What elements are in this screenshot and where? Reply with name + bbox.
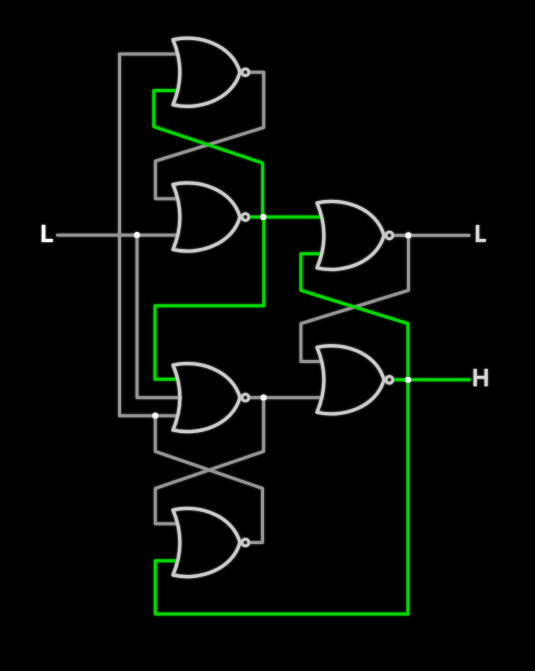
NOR gate U2 mid-left: [173, 183, 249, 251]
wire U5 output junction down, diagonal, down to U6 upper input: [155, 398, 263, 524]
wire U6 output feedback: bubble right, up, diagonal up-left: [155, 416, 262, 543]
NOR gate U3 mid-right: [317, 201, 393, 269]
junction at U4 output: [405, 377, 411, 383]
wire U2 output net up, diagonal, up to U1 lower input: [154, 91, 263, 218]
NOR gate U1 top-left: [173, 38, 249, 106]
junction at U5 output: [261, 395, 267, 401]
wire junction left and long vertical up to gate U1 upper input: [120, 54, 177, 416]
wire U4 output junction down, left, up to U6 lower input: [155, 380, 408, 614]
junction at U3 output: [405, 232, 411, 238]
junction at U2 output: [260, 214, 266, 220]
NOR gate U5 lower-left (3-input): [173, 364, 249, 432]
wire U4 output junction up, diagonal, up to U3 lower input: [301, 254, 408, 380]
wire U3 output junction down, diagonal, down to U4 upper input: [301, 235, 409, 361]
wire L net vertical down to gate U5 middle input: [137, 235, 181, 398]
NOR gate U4 lower-right: [317, 346, 393, 414]
wire U5 output to U4 lower input: [250, 396, 320, 399]
wire L input horizontal to gate U2 lower input: [58, 234, 177, 237]
NOR gate U6 bottom-left: [173, 508, 249, 576]
node L input label: [42, 225, 53, 242]
wire U4 output right to H label: [394, 378, 469, 381]
wire U2 output right to U3 upper input: [250, 216, 320, 219]
wire junction to U5 lower input: [155, 414, 176, 417]
junction on L input line: [134, 232, 140, 238]
wire U3 output to right L label: [394, 234, 469, 237]
node L output label: [476, 225, 486, 242]
wire U2 output net down, left, down to U5 upper input: [155, 217, 264, 379]
junction on U5 lower input line: [152, 413, 158, 419]
wire U1 output right, down, diagonal, down to U2 upper input: [155, 72, 263, 198]
node H output label: [474, 369, 488, 386]
